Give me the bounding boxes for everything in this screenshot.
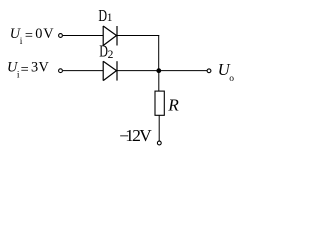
label Uo xyxy=(218,60,235,84)
input terminal node 1 xyxy=(59,34,63,38)
svg-text:o: o xyxy=(229,74,234,84)
label Ui = 3V xyxy=(7,60,50,81)
wire corner down to junction xyxy=(158,35,160,71)
wire D1 cathode to corner xyxy=(118,35,160,37)
svg-text:U=0V: U=0V xyxy=(10,26,55,44)
wire input1 to D1 anode xyxy=(63,35,103,37)
label D2 xyxy=(99,43,113,61)
wire junction to resistor top xyxy=(158,71,160,92)
diode D2 xyxy=(103,61,117,80)
label Ui = 0V xyxy=(10,26,55,47)
resistor R body xyxy=(155,91,164,115)
wire resistor bottom to -12V terminal xyxy=(158,116,160,142)
diode D1 xyxy=(103,26,117,46)
wire input2 to D2 anode xyxy=(63,70,103,72)
svg-text:2: 2 xyxy=(108,49,114,61)
label D1 xyxy=(98,7,112,25)
svg-text:1: 1 xyxy=(107,12,113,24)
svg-text:R: R xyxy=(167,96,179,115)
label -12V xyxy=(119,126,152,145)
junction node dot xyxy=(156,68,161,73)
svg-text:i: i xyxy=(17,71,20,81)
svg-text:U=3V: U=3V xyxy=(7,60,50,78)
terminal -12V xyxy=(157,141,161,145)
svg-text:−12V: −12V xyxy=(119,126,152,145)
input terminal node 2 xyxy=(59,69,63,73)
svg-text:i: i xyxy=(20,37,23,47)
output terminal node xyxy=(207,69,211,73)
wire D2 cathode to output terminal xyxy=(118,70,208,72)
